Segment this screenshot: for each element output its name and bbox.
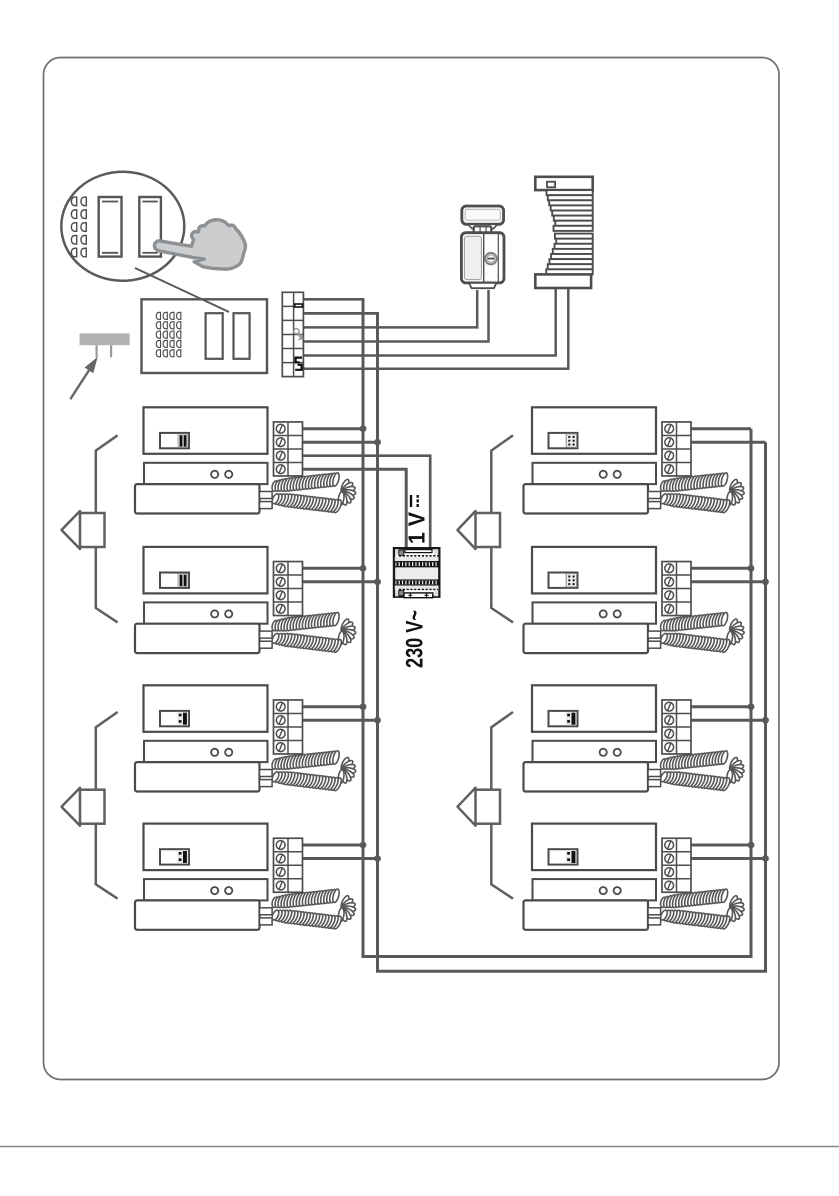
wire: right intercom 3 line 2: [691, 719, 766, 722]
power supply unit: [394, 548, 439, 598]
terminal icon: key: [294, 329, 303, 340]
wire: left intercom 1 line 2: [302, 441, 378, 444]
lamella strike plate: [535, 177, 592, 288]
terminal icon: strike: [295, 358, 302, 370]
label 230 V ac: [402, 610, 429, 668]
junction dot bus A right 3: [748, 703, 755, 710]
right intercom unit 2: [524, 547, 745, 653]
junction dot bus A left 4: [360, 842, 367, 849]
wire: terminal 3 to electric strike: [303, 290, 477, 327]
panel speaker grille: [156, 312, 181, 356]
leader line: [135, 268, 229, 312]
wire: intercom 1 terminal 4 to PSU: [302, 469, 406, 549]
junction dot bus B right 2: [762, 578, 769, 585]
group marker right 2: [458, 712, 514, 899]
wire: left intercom 3 line 1: [302, 705, 363, 708]
junction dot bus B right 3: [762, 717, 769, 724]
wire: left intercom 2 line 1: [302, 567, 363, 570]
left intercom unit 2: [135, 547, 356, 653]
terminal icon: bar: [294, 303, 303, 308]
arrow to flush box: [70, 358, 97, 399]
wire: right intercom 2 line 2: [691, 580, 766, 583]
label 1 V dc: [404, 495, 430, 544]
wire: intercom 1 terminal 3 to PSU: [302, 456, 430, 549]
electric strike lock: [461, 206, 504, 288]
junction dot bus B left 4: [374, 855, 381, 862]
wire: terminal 6 to strike plate: [303, 287, 568, 369]
panel call button 1: [206, 313, 223, 359]
junction dot bus A right 4: [748, 842, 755, 849]
junction dot bus A left 2: [360, 565, 367, 572]
wire: terminal 4 to electric strike: [303, 290, 489, 342]
wire: right intercom 1 line 1: [691, 427, 752, 430]
pointing hand: [154, 220, 245, 269]
detail call button 2: [139, 197, 161, 257]
junction dot bus B right 4: [762, 855, 769, 862]
right intercom unit 1: [524, 407, 745, 513]
junction dot bus B left 1: [374, 439, 381, 446]
left intercom unit 4: [135, 824, 356, 930]
wire: right intercom 4 line 2: [691, 857, 766, 860]
group marker left 2: [62, 712, 118, 899]
detail circle: door station close-up: [61, 172, 184, 281]
page frame: [44, 58, 780, 1080]
wire: terminal 5 to strike plate: [303, 287, 556, 356]
left intercom unit 1: [135, 407, 356, 513]
door station terminal block: [282, 292, 303, 376]
footer rule: [0, 1146, 839, 1148]
riser bus A: [363, 299, 751, 956]
junction dot bus A right 2: [748, 565, 755, 572]
right intercom unit 4: [524, 824, 745, 930]
wire: terminal 1 to bus A: [303, 298, 365, 301]
wire: left intercom 2 line 2: [302, 580, 378, 583]
svg-text:230 V~: 230 V~: [402, 610, 429, 668]
wire: right intercom 4 line 1: [691, 844, 752, 847]
wire: left intercom 4 line 2: [302, 857, 378, 860]
detail call button 1: [99, 197, 122, 257]
riser bus B: [378, 313, 766, 971]
wire: right intercom 3 line 1: [691, 705, 752, 708]
junction dot bus B left 3: [374, 717, 381, 724]
junction dot bus A left 3: [360, 703, 367, 710]
flush-mount box: [80, 333, 130, 357]
wire: terminal 2 to bus B: [303, 312, 379, 315]
wire: left intercom 3 line 2: [302, 719, 378, 722]
junction dot bus B left 2: [374, 578, 381, 585]
door station panel: [142, 299, 268, 373]
junction dot bus A left 1: [360, 425, 367, 432]
wire: right intercom 2 line 1: [691, 567, 752, 570]
group marker left 1: [62, 435, 118, 622]
panel call button 2: [234, 313, 250, 359]
right intercom unit 3: [524, 685, 745, 791]
detail speaker grille: [71, 197, 86, 257]
wire: left intercom 4 line 1: [302, 844, 363, 847]
wire: left intercom 1 line 1: [302, 427, 363, 430]
svg-text:1 V: 1 V: [404, 511, 430, 544]
group marker right 1: [458, 435, 514, 622]
left intercom unit 3: [135, 685, 356, 791]
wire: right intercom 1 line 2: [691, 441, 766, 444]
